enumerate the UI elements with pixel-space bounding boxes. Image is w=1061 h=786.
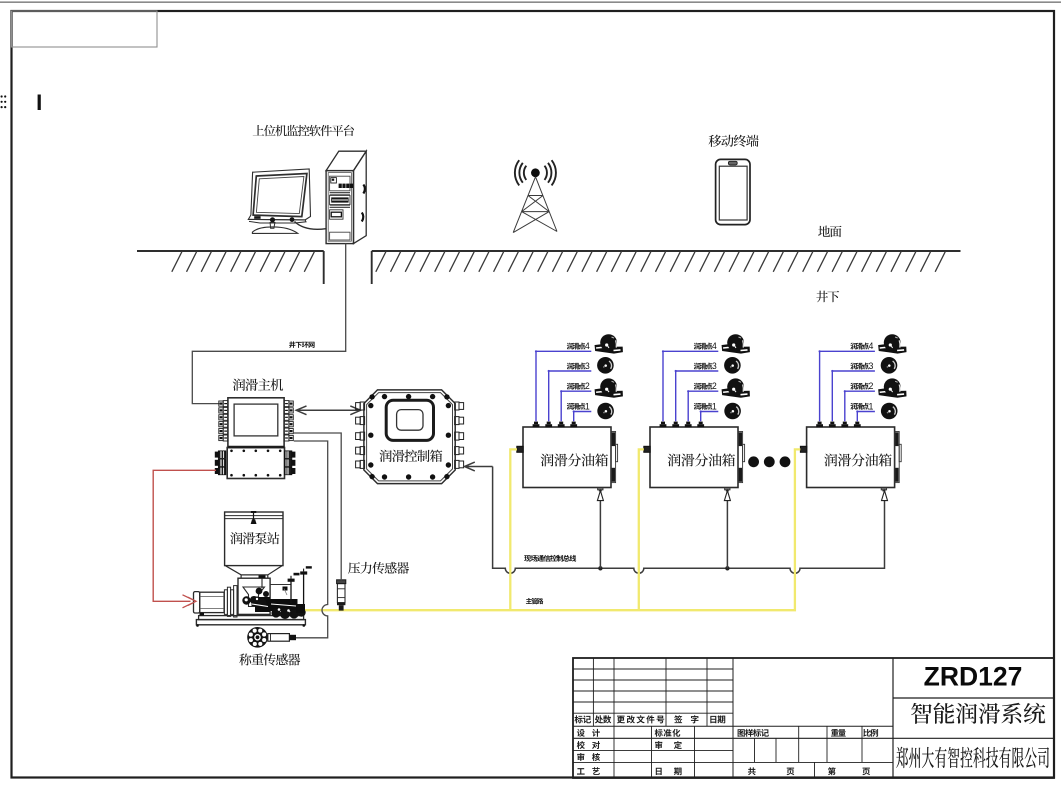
yellow branch to box1 bbox=[510, 449, 517, 610]
label 主管路 bbox=[526, 598, 543, 604]
yellow main pipe bbox=[303, 449, 801, 610]
label 润滑主机 bbox=[233, 379, 283, 391]
tank funnel bbox=[226, 566, 282, 578]
host left connector stubs bbox=[219, 401, 228, 441]
pc tower floppy bay bbox=[330, 210, 343, 219]
arrow up into box at x=884.5 bbox=[882, 491, 888, 501]
ground surface line (right segment) bbox=[372, 250, 961, 252]
yellow branch to box2 bbox=[639, 449, 644, 610]
pc tower side face bbox=[354, 151, 367, 243]
pc tower bay1 slots bbox=[339, 184, 353, 188]
phone body bbox=[716, 159, 750, 224]
host display screen bbox=[234, 404, 278, 436]
host left cable lugs bbox=[215, 451, 226, 458]
monitor cable port bbox=[290, 217, 295, 222]
label 润滑控制箱 bbox=[379, 450, 442, 462]
ground hatching bbox=[172, 252, 946, 272]
red cable host-to-motor bbox=[153, 470, 216, 601]
pc tower power dot bbox=[332, 179, 334, 181]
arrow up into box at x=600.4 bbox=[597, 491, 603, 501]
label 称重传感器 bbox=[239, 653, 300, 665]
pc tower bay2 stripe bbox=[332, 199, 348, 201]
antenna lattice tower bbox=[513, 177, 557, 233]
ground gap tick right bbox=[371, 251, 373, 284]
valve pipe 2 bbox=[303, 574, 305, 607]
label 润滑泵站 bbox=[230, 532, 279, 544]
title 智能润滑系统 bbox=[911, 703, 1045, 724]
host right cable lugs bbox=[285, 451, 296, 458]
control box window frame bbox=[386, 400, 433, 440]
ground surface line (left segment) bbox=[137, 250, 324, 252]
label 现场通信控制总线 bbox=[524, 555, 576, 562]
monitor-to-tower cable bbox=[295, 222, 327, 230]
wire host to weighing sensor bbox=[294, 441, 328, 638]
bus branch to box2 bbox=[726, 496, 728, 568]
ellipsis dots between boxes bbox=[748, 456, 790, 467]
phone screen bbox=[719, 166, 747, 220]
motor end cap bbox=[194, 592, 200, 613]
valve cluster blobs bbox=[250, 587, 306, 620]
bus junction dot 1 bbox=[598, 566, 602, 570]
monitor stand hub bbox=[270, 217, 275, 222]
antenna top dot bbox=[531, 168, 540, 177]
arrow up into box at x=727.4 bbox=[724, 491, 730, 501]
label 上位机监控软件平台 bbox=[253, 125, 354, 136]
tank body bbox=[225, 512, 283, 566]
pc tower bay2 slots bbox=[331, 197, 348, 202]
label 井下 (underground) bbox=[816, 291, 839, 303]
pressure sensor body bbox=[337, 584, 345, 603]
valve pipe 1 bbox=[290, 581, 292, 603]
ground gap tick left bbox=[323, 251, 325, 284]
monitor bottom bezel strip bbox=[248, 219, 306, 223]
pc tower front face bbox=[326, 171, 353, 244]
base plate lower bbox=[196, 620, 305, 625]
label 移动终端 bbox=[709, 135, 759, 147]
host terminal unit bolts bbox=[230, 450, 281, 477]
control box octagon outer bbox=[364, 390, 455, 484]
tank lid lines bbox=[225, 515, 283, 517]
distribution box 2 (润滑分油箱) with lube points bbox=[644, 334, 750, 491]
weighing sensor flange bolts bbox=[249, 629, 266, 646]
monitor screen bbox=[256, 177, 304, 214]
motor coupling plates bbox=[224, 590, 227, 615]
row 审核 bbox=[577, 753, 600, 761]
bus branch to box1 bbox=[599, 496, 601, 568]
monitor outer case bbox=[248, 169, 310, 220]
monitor buttons bbox=[254, 216, 260, 219]
tank filler cap bbox=[251, 511, 256, 513]
base plate feet marks bbox=[200, 613, 205, 616]
control box window bbox=[397, 410, 423, 431]
label 压力传感器 bbox=[348, 562, 409, 574]
company 郑州大有智控科技有限公司 bbox=[896, 747, 1049, 769]
pc tower top face bbox=[326, 151, 366, 170]
top-left reference box bbox=[12, 11, 158, 47]
bus junction dot 2 bbox=[725, 566, 729, 570]
field communication bus bbox=[493, 467, 885, 574]
row 工艺/日期/共页第页 bbox=[577, 767, 600, 775]
distribution box 3 (润滑分油箱) with lube points bbox=[800, 334, 906, 491]
arrow into control box bbox=[465, 462, 493, 471]
pc tower bay2 bbox=[330, 195, 350, 204]
pc tower side handle bottom bbox=[362, 213, 364, 222]
pc tower front inset bbox=[328, 173, 351, 242]
pc tower divider lines bbox=[330, 191, 350, 193]
svg-text:ZRD127: ZRD127 bbox=[924, 662, 1023, 692]
row 校对/审定 bbox=[577, 741, 600, 749]
host terminal unit bbox=[227, 448, 284, 479]
pc tower power button bbox=[331, 178, 337, 183]
monitor screen bezel bbox=[253, 174, 307, 217]
pump inner valve detail bbox=[242, 596, 250, 604]
host right connector stubs bbox=[284, 401, 293, 441]
valve cluster highlights bbox=[252, 604, 268, 607]
base plate upper bbox=[199, 616, 304, 620]
pc tower side handle top bbox=[363, 185, 365, 194]
label 地面 (surface) bbox=[818, 226, 841, 238]
control box right terminals bbox=[455, 402, 464, 468]
page top edge line bbox=[0, 1, 1061, 3]
control box octagon inner line bbox=[367, 393, 453, 481]
motor body lines bbox=[200, 595, 224, 597]
antenna signal arcs bbox=[515, 160, 556, 185]
motor body bbox=[200, 592, 224, 612]
pc tower floppy slot bbox=[331, 212, 341, 217]
host display unit bbox=[228, 398, 284, 447]
revision header 标记处数更改文件号签字日期 bbox=[575, 715, 591, 723]
pump housing inner shape bbox=[243, 587, 265, 607]
pc tower bay1 bbox=[330, 176, 350, 191]
host unit junction band bbox=[228, 446, 284, 449]
control box left terminals bbox=[356, 402, 365, 468]
left margin perforation dots bbox=[1, 95, 7, 108]
phone speaker bbox=[728, 161, 737, 165]
pc tower bottom band bbox=[330, 232, 350, 240]
pc tower divider2 bbox=[330, 205, 350, 207]
bidirectional arrow host-controlbox bbox=[296, 406, 360, 415]
distribution box 1 (润滑分油箱) with lube points bbox=[517, 334, 623, 491]
control box bolts bbox=[368, 394, 451, 480]
monitor stand neck bbox=[270, 223, 275, 229]
red arrowhead bbox=[183, 595, 197, 608]
title block grid bbox=[573, 658, 1054, 778]
monitor stand base bbox=[252, 227, 297, 234]
weighing sensor body bbox=[268, 634, 290, 642]
wire: pc to underground ring net bbox=[192, 244, 345, 404]
pump housing bbox=[238, 578, 270, 614]
wire host to pressure sensor bbox=[294, 433, 341, 580]
housing top fitting bbox=[259, 576, 266, 579]
weighing sensor flange bbox=[247, 627, 268, 648]
revision mark I bbox=[38, 95, 41, 111]
row 设计/标准化/图样标记/重量/比例 bbox=[577, 729, 600, 737]
label 井下环网 bbox=[289, 341, 314, 348]
weighing sensor hub bbox=[254, 633, 262, 641]
